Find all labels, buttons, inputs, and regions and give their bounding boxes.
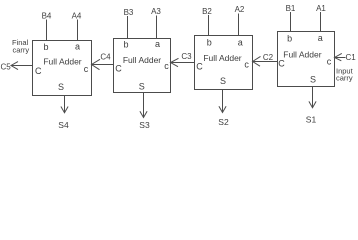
svg-text:C1: C1 <box>346 53 357 62</box>
wire S2 output with arrowhead <box>219 90 226 113</box>
caption Input carry <box>336 66 354 82</box>
svg-text:S: S <box>58 82 64 92</box>
wire A2 input <box>238 14 240 36</box>
full adder FA4 box (leftmost) <box>33 41 92 96</box>
wire C2 carry from FA1 to FA2 with arrowhead <box>253 56 278 66</box>
svg-text:S4: S4 <box>58 120 69 130</box>
svg-text:S: S <box>310 75 316 85</box>
svg-text:A2: A2 <box>235 5 245 14</box>
svg-text:b: b <box>43 42 48 52</box>
svg-text:Full Adder: Full Adder <box>123 55 161 65</box>
svg-text:Full Adder: Full Adder <box>43 57 81 67</box>
svg-text:C2: C2 <box>263 53 274 62</box>
svg-text:c: c <box>327 57 332 67</box>
full adder FA3 box <box>114 39 171 93</box>
svg-text:B3: B3 <box>124 8 134 17</box>
svg-text:A1: A1 <box>316 4 326 13</box>
caption Final carry <box>12 38 29 55</box>
svg-text:a: a <box>318 33 323 43</box>
svg-text:Full Adder: Full Adder <box>283 50 321 60</box>
svg-text:C: C <box>278 59 285 69</box>
svg-text:carry: carry <box>13 46 30 55</box>
wire A4 input <box>77 20 79 41</box>
svg-text:C3: C3 <box>181 52 192 61</box>
wire B1 input <box>290 12 292 32</box>
wire C1 input carry with arrowhead <box>335 53 346 60</box>
svg-text:C5: C5 <box>1 63 12 72</box>
wire A1 input <box>320 12 322 32</box>
svg-text:b: b <box>207 37 212 47</box>
svg-text:a: a <box>155 39 160 49</box>
wire C5 final carry with arrowhead <box>11 62 33 70</box>
svg-text:S1: S1 <box>306 115 317 125</box>
svg-text:b: b <box>287 34 292 44</box>
wire S4 output with arrowhead <box>61 96 68 113</box>
svg-text:S: S <box>220 76 226 86</box>
wire S1 output with arrowhead <box>309 87 316 108</box>
svg-text:S2: S2 <box>218 117 229 127</box>
wire S3 output with arrowhead <box>140 93 147 118</box>
svg-text:A4: A4 <box>72 12 82 21</box>
wire B3 input <box>127 16 129 39</box>
wire B4 input <box>46 20 48 41</box>
svg-text:S3: S3 <box>139 120 150 130</box>
full adder FA2 box <box>195 36 253 90</box>
svg-text:C: C <box>196 62 203 72</box>
svg-text:B1: B1 <box>286 4 296 13</box>
svg-text:Full Adder: Full Adder <box>203 53 241 63</box>
svg-text:a: a <box>75 42 80 52</box>
full adder FA1 box (rightmost) <box>278 32 335 87</box>
svg-text:A3: A3 <box>151 7 161 16</box>
svg-text:c: c <box>164 61 169 71</box>
wire C3 carry from FA2 to FA3 with arrowhead <box>171 58 195 66</box>
svg-text:C: C <box>35 66 42 76</box>
wire A3 input <box>156 16 158 39</box>
svg-text:S: S <box>139 82 145 92</box>
wire B2 input <box>208 15 210 36</box>
svg-text:B4: B4 <box>42 12 52 21</box>
wire C4 carry from FA3 to FA4 with arrowhead <box>92 59 114 69</box>
svg-text:c: c <box>244 60 249 70</box>
svg-text:c: c <box>84 64 89 74</box>
svg-text:B2: B2 <box>202 7 212 16</box>
svg-text:a: a <box>238 37 243 47</box>
svg-text:C: C <box>115 64 122 74</box>
svg-text:C4: C4 <box>100 53 111 62</box>
svg-text:carry: carry <box>336 74 353 83</box>
svg-text:b: b <box>123 40 128 50</box>
